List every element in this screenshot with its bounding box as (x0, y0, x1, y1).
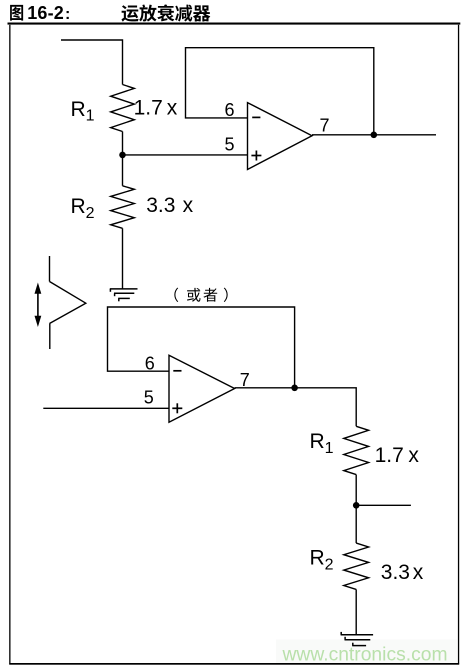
frame bottom border (9, 663, 459, 665)
svg-text:x: x (413, 561, 424, 584)
wire: U1 output (312, 134, 436, 136)
svg-text:x: x (167, 96, 178, 119)
svg-text:7: 7 (320, 116, 330, 136)
wire: tap to op-amp pin 5 (123, 154, 248, 156)
svg-text:5: 5 (225, 134, 235, 154)
svg-text:7: 7 (240, 370, 250, 390)
wire: tap output to right (356, 504, 411, 506)
wire: R1 bottom to R2 top through node (122, 132, 124, 186)
svg-text:1.7: 1.7 (134, 96, 163, 119)
svg-text::: : (65, 6, 70, 23)
wire: R2 to ground (355, 589, 357, 635)
wire: U2 pin 5 input from left (43, 407, 169, 409)
op-amp U2 feedback wire: pin6 left, up, across, down to output (108, 307, 295, 388)
ground (bottom circuit) (341, 632, 374, 646)
frame left border (9, 25, 10, 664)
figure title: 图 16-2 (10, 3, 70, 23)
frame right border (458, 25, 459, 664)
node: U1 output/feedback junction dot (371, 132, 378, 139)
wire: R2 to ground (122, 228, 124, 289)
svg-text:3.3: 3.3 (381, 561, 410, 584)
resistor R2 (top) zigzag (111, 186, 135, 229)
minus sign (U2 inverting input) (173, 370, 181, 372)
plus sign (U1 non-inverting input) (251, 155, 261, 157)
title rule (8, 23, 461, 25)
svg-text:x: x (183, 194, 194, 217)
plus sign (U2 non-inverting input) (172, 407, 182, 409)
partial op-amp chevron (50, 282, 86, 324)
ground (top circuit) (110, 289, 138, 301)
wire: R1 to R2 through tap node (355, 475, 357, 543)
op-amp U1 feedback wire: pin6 left, up, across, down to output (186, 48, 374, 135)
svg-text:3.3: 3.3 (146, 194, 175, 217)
svg-text:x: x (408, 444, 419, 467)
resistor R2 (bottom) zigzag (344, 543, 369, 589)
wire: U2 output across and down to divider (235, 388, 357, 427)
svg-text:www.cntronics.com: www.cntronics.com (282, 645, 448, 666)
figure title text: 运放衰减器 (121, 4, 210, 21)
node: U2 output/feedback junction dot (291, 385, 298, 392)
double-headed swap arrow (35, 283, 42, 328)
node: divider tap junction dot (353, 502, 360, 509)
svg-text:6: 6 (145, 354, 155, 374)
watermark band (276, 640, 457, 663)
wire: top lead of partial op-amp (49, 256, 51, 282)
minus sign (U1 inverting input) (252, 116, 260, 118)
wire: input top horizontal + drop to R1 (61, 40, 123, 85)
svg-text:6: 6 (225, 100, 235, 120)
svg-text:16-2: 16-2 (27, 3, 64, 23)
svg-text:5: 5 (144, 388, 154, 408)
(或者) label (174, 288, 227, 302)
resistor R1 (top) zigzag (111, 85, 135, 132)
resistor R1 (bottom) zigzag (344, 426, 369, 474)
op-amp U2 triangle (169, 355, 235, 422)
wire: bottom lead of partial op-amp (49, 324, 51, 350)
node junction dot (top divider tap) (119, 152, 126, 159)
svg-text:1.7: 1.7 (375, 444, 404, 467)
op-amp U1 triangle (248, 103, 313, 170)
